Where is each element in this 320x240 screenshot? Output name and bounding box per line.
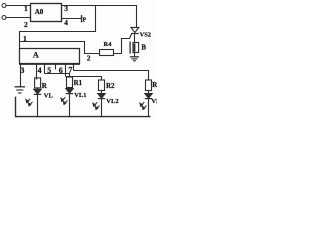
pin3 tick	[20, 64, 22, 86]
thyristor cathode wire	[134, 34, 136, 43]
probe electrode P	[81, 15, 83, 22]
led VL1	[69, 87, 71, 90]
ground under B	[130, 56, 139, 58]
led VL1 arrows	[61, 97, 65, 101]
buzzer B box	[133, 43, 139, 53]
svg-text:2: 2	[24, 20, 28, 29]
svg-text:3: 3	[64, 4, 68, 13]
led VL3	[148, 91, 150, 94]
wire B to ground	[134, 53, 136, 57]
wire junction down to pin1 of A	[20, 6, 96, 49]
pin6 tick	[65, 64, 67, 77]
buzzer B bar	[129, 42, 131, 54]
pin5 tick	[44, 64, 46, 74]
resistor R1	[67, 77, 73, 88]
wire pin2 of A0	[6, 17, 30, 19]
wire pin5 run to R1	[45, 74, 70, 78]
block A0	[31, 4, 62, 22]
thick bottom edge of A	[19, 63, 80, 65]
svg-text:4: 4	[64, 18, 68, 27]
svg-text:1: 1	[24, 4, 28, 13]
wire pin7 run to R3	[74, 71, 149, 81]
svg-text:VL2: VL2	[106, 98, 118, 105]
svg-text:A: A	[33, 51, 39, 60]
svg-text:4: 4	[38, 66, 42, 75]
svg-text:A0: A0	[35, 8, 44, 16]
svg-text:R1: R1	[74, 79, 83, 87]
buzzer B core	[134, 43, 136, 51]
svg-text:R2: R2	[106, 82, 115, 90]
svg-text:2: 2	[87, 53, 91, 62]
svg-text:R3: R3	[152, 81, 157, 89]
ground pin3	[15, 86, 25, 88]
led VL2	[101, 91, 103, 94]
resistor R	[35, 78, 41, 88]
resistor R4	[100, 50, 114, 56]
terminal input 1	[2, 4, 6, 8]
svg-text:VS2: VS2	[140, 32, 151, 39]
svg-text:5: 5	[47, 66, 51, 75]
wire pin6 run to R2	[66, 77, 102, 81]
led VL	[37, 88, 39, 89]
svg-text:7: 7	[68, 65, 72, 74]
wire pin2 of A to R4	[20, 42, 100, 54]
svg-text:6: 6	[59, 66, 63, 75]
led VL3 arrows	[140, 102, 144, 106]
svg-text:VL3: VL3	[151, 98, 157, 105]
led VL arrows	[26, 99, 30, 103]
pin4 tick	[36, 64, 38, 80]
labels	[20, 4, 164, 105]
separator tick	[55, 64, 57, 70]
pin7 tick	[73, 64, 75, 71]
svg-text:3: 3	[20, 66, 24, 75]
wire pin1 of A0	[6, 5, 30, 7]
svg-text:1: 1	[23, 34, 27, 43]
svg-text:VL: VL	[44, 93, 54, 100]
thyristor VS2 triangle	[131, 28, 139, 33]
resistor R3	[146, 80, 152, 91]
wire R4 to SCR gate	[114, 34, 132, 54]
svg-text:R: R	[42, 82, 48, 90]
wire pin4 of A0 to probe P	[62, 18, 82, 20]
IC block A	[20, 49, 80, 64]
bottom rail	[16, 97, 151, 117]
svg-text:R4: R4	[104, 41, 113, 48]
resistor R2	[99, 80, 105, 91]
wire pin3 of A0 to SCR anode	[62, 6, 137, 28]
svg-text:VL1: VL1	[74, 92, 86, 99]
terminal input 2	[2, 16, 6, 20]
led VL2 arrows	[93, 102, 97, 106]
thyristor cathode bar	[131, 33, 139, 35]
svg-text:B: B	[141, 43, 146, 51]
svg-text:P: P	[83, 18, 87, 24]
